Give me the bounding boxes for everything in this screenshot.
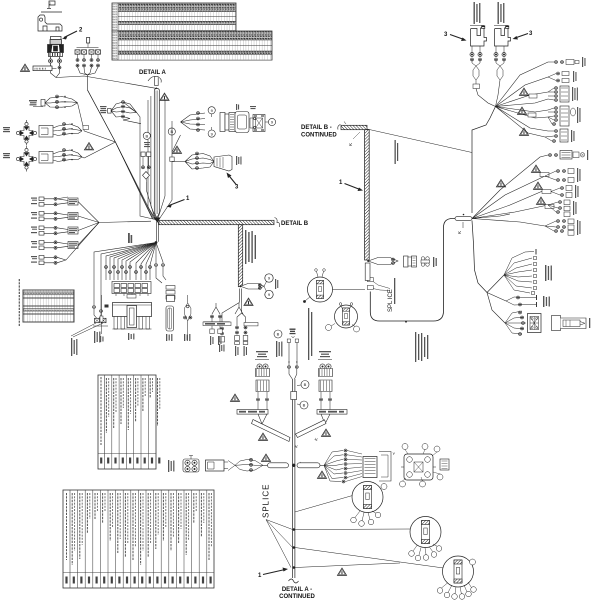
- right row 5 (3 wires): [519, 128, 574, 143]
- svg-text:CONTINUED: CONTINUED: [301, 133, 337, 139]
- wire with lens and eyelets: [184, 295, 192, 341]
- lower-right branch C (connector + plug): [487, 293, 590, 336]
- 5 breakout rows: [39, 197, 99, 265]
- drop from ferrule to lower-right cluster: [472, 221, 487, 293]
- svg-text:CONTINUED: CONTINUED: [279, 594, 315, 600]
- right arm chain: [320, 449, 396, 483]
- right row 1: [555, 57, 586, 67]
- connector face detail (square with 4 eyes): [400, 444, 450, 488]
- svg-text:B: B: [303, 403, 306, 408]
- svg-text:SPL ICE: SPL ICE: [388, 289, 394, 312]
- svg-text:B: B: [277, 332, 280, 337]
- mounting bracket: [38, 12, 62, 31]
- coil 1 wires: [470, 46, 496, 107]
- SPLICE label + leaders: [262, 484, 296, 569]
- cable tie note rotated: [308, 308, 312, 360]
- label 1 bottom with arrow: [258, 568, 288, 580]
- right assembly: [317, 351, 347, 424]
- detail balloon 2: [409, 517, 442, 561]
- trunk cross arms at y=466: [261, 454, 326, 478]
- left arm chain: [168, 456, 268, 473]
- trunk continues below splice: [239, 289, 241, 303]
- ignition coil 1: [471, 26, 487, 46]
- label 1 with arrow: [167, 196, 191, 208]
- wide strap left: [252, 420, 327, 442]
- warning triangle + terminal label box: [20, 64, 56, 71]
- long leader line from detail B corner: [367, 129, 472, 153]
- svg-text:DETAIL A: DETAIL A: [139, 70, 167, 76]
- plug to the right: [552, 316, 591, 331]
- svg-text:K: K: [348, 143, 353, 146]
- balloon B on feeder line: [168, 128, 175, 135]
- detail B cont row 5: [545, 219, 581, 235]
- wire run list table block A: [112, 3, 236, 31]
- terminal list table (big bottom-left): [63, 490, 214, 588]
- small option table with rotated caption: [19, 279, 74, 326]
- balloon B left: [274, 330, 282, 338]
- 4-eye connector: [183, 456, 199, 473]
- balloon B markers right of trunk: [301, 381, 309, 389]
- J1 to J2 drop: [156, 222, 158, 242]
- J2 node: [155, 241, 158, 244]
- parallel feeder lines left of trunk: [151, 96, 156, 219]
- horizontal tag bars right: [203, 314, 231, 326]
- label 2 with arrow: [62, 28, 83, 40]
- relay K1: [48, 37, 64, 57]
- detail B cont row 4: [536, 197, 576, 217]
- junction J1 wires converging: [84, 131, 153, 219]
- lower big connector (comb): [113, 303, 152, 341]
- wire run list table block B: [112, 31, 272, 60]
- detail balloon 3: [437, 556, 476, 599]
- mid detail balloon 2: [326, 303, 360, 332]
- flag marker: [47, 1, 55, 9]
- main harness trunk (detail A) wire bundle capsule: [154, 89, 159, 219]
- svg-text:B: B: [145, 134, 148, 139]
- ignition coil 2: [495, 26, 511, 46]
- mating connector with X pattern: [253, 115, 265, 132]
- trunk cap curl: [148, 77, 161, 83]
- lower-right branch B (2 rows): [487, 293, 550, 308]
- item 3 connector (top area): [172, 152, 242, 191]
- svg-text:K: K: [457, 231, 462, 234]
- eyelets two rows: [105, 264, 165, 274]
- double-eye connector stack: [256, 364, 270, 410]
- svg-text:DETAIL B -: DETAIL B -: [301, 125, 332, 131]
- rect connector: [206, 460, 225, 471]
- svg-text:B: B: [304, 382, 307, 387]
- right row 2: [548, 71, 577, 83]
- terminal type table (middle): [98, 375, 160, 469]
- connector stack: [211, 114, 213, 130]
- left assembly: [230, 351, 269, 424]
- solenoid cross component 2: [3, 143, 94, 172]
- triangle + tag at trunk top: [160, 93, 169, 100]
- horizontal trunk to detail B: [159, 220, 274, 224]
- vertical ref text above coils: [474, 2, 505, 24]
- right small boxes: [156, 267, 166, 283]
- svg-text:DETAIL A -: DETAIL A -: [282, 587, 312, 593]
- rotated harness note near bottom edge: [415, 332, 428, 362]
- splice wrap on trunk: [291, 392, 297, 400]
- svg-text:Y: Y: [393, 451, 396, 456]
- label 1 with arrow: [339, 180, 363, 191]
- rotated wire id text right of trunk: [394, 278, 395, 304]
- main multi-way connector block (upper): [105, 282, 152, 308]
- left long wires ends: [93, 306, 96, 309]
- splice lens at trunk bottom: [240, 274, 279, 299]
- coil 2 wires: [494, 46, 506, 107]
- lower-right double branch: [237, 303, 246, 326]
- solenoid cross component 1: [3, 120, 89, 146]
- fuse component: [166, 296, 175, 342]
- Y-branch hangers with bars: [204, 303, 230, 345]
- wire from relay to trunk cap: [56, 76, 156, 88]
- mid detail balloon 1: [303, 269, 365, 303]
- row id ticks: [31, 198, 37, 263]
- short horizontal hatched trunk with curl: [338, 125, 341, 130]
- right row 4 (5 wires): [517, 106, 580, 126]
- lower-left branch: [222, 303, 239, 327]
- rotated note text (tape note): [245, 230, 256, 264]
- big U loop wire from trunk bottom to right splice: [370, 219, 455, 322]
- trunk end break: [289, 579, 299, 583]
- vertical trunk stub below lens: [365, 263, 370, 280]
- relay wires with eyelets: [49, 57, 62, 78]
- inline connector bank (4 connectors): [75, 38, 115, 143]
- fan to vertical drop wires: [94, 243, 156, 306]
- svg-text:SPLICE: SPLICE: [262, 484, 271, 518]
- label 3 right with arrow: [513, 31, 534, 40]
- lower-right branch A (8 sq terminals): [487, 249, 552, 295]
- splice ferrule right section: [455, 214, 472, 234]
- top middle connector cluster (item with balloons): [181, 104, 276, 137]
- label 3 left with arrow: [444, 32, 467, 41]
- right row 3 (4 wires): [519, 86, 577, 102]
- detail balloon 1: [351, 482, 387, 527]
- mini fan cluster with 4 eyelets: [100, 101, 137, 121]
- horizontal tag bar: [244, 323, 258, 326]
- main bottom trunk: [293, 379, 295, 578]
- trunk bottom of detail B vertical: lens fan: [367, 256, 437, 267]
- detail B cont row 2: [531, 165, 580, 183]
- left thin wire + tiny part: [100, 295, 104, 342]
- tiny ref text left of drop: [128, 233, 132, 243]
- leader lines to detail balloons: [295, 496, 444, 569]
- balloon B with connector pair and diamond: [141, 132, 151, 182]
- detail B cont row 1: [549, 150, 589, 160]
- detail B cont row 3: [496, 180, 578, 199]
- corner into vertical trunk: [365, 130, 370, 260]
- svg-text:DETAIL B: DETAIL B: [281, 221, 309, 227]
- feeder wires into trunk: [287, 329, 298, 380]
- fan from ferrule to right rows: [472, 155, 548, 226]
- node fan upper right: [472, 62, 554, 213]
- vertical trunk below detail B: [238, 225, 242, 287]
- upper fan cluster with 3 eyelets: [29, 95, 84, 131]
